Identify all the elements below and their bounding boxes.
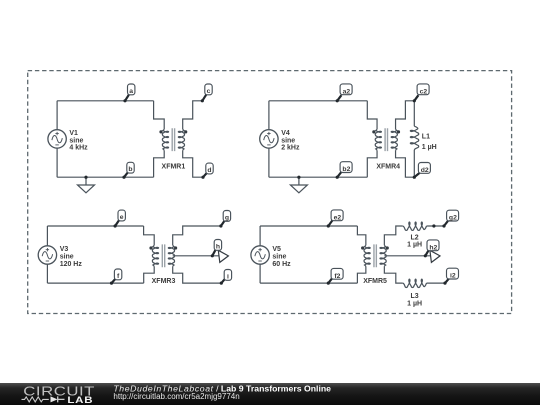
node i2 flag [443, 268, 458, 285]
wire secondary bottom to node i [173, 266, 222, 283]
center tap arrow [430, 250, 440, 262]
transformer XFMR3 secondary winding [168, 245, 174, 266]
node d flag [201, 163, 213, 179]
wire left of V3 [46, 226, 48, 283]
inductor L2 [403, 222, 427, 230]
node b2 flag [336, 162, 353, 179]
wire secondary bottom to node d2 [396, 150, 415, 177]
transformer XFMR3 primary winding [152, 245, 158, 266]
svg-text:h2: h2 [429, 244, 437, 251]
inductor L3 [403, 279, 427, 287]
wire secondary bottom to node d [183, 150, 203, 177]
ground [78, 177, 95, 193]
svg-text:1 µH: 1 µH [407, 242, 422, 249]
wire primary top jog [357, 226, 365, 245]
wire primary bottom jog [357, 266, 365, 283]
wire secondary top to node g [173, 226, 221, 245]
wire center tap to node h [173, 255, 219, 257]
node g2 flag [442, 210, 458, 227]
svg-text:XFMR5: XFMR5 [363, 278, 387, 285]
logo diode [51, 396, 58, 402]
svg-text:a2: a2 [343, 88, 351, 95]
svg-text:sine: sine [272, 254, 286, 261]
transformer XFMR1 core [172, 128, 174, 151]
node c2 flag [413, 84, 429, 103]
wire primary top jog [154, 101, 165, 129]
wire L2 to node g2 [427, 225, 445, 227]
logo resistor zigzag [22, 397, 49, 402]
node a2 flag [336, 84, 353, 103]
wire secondary bottom to L3 [384, 266, 402, 283]
node i flag [220, 270, 232, 285]
source V5 [251, 246, 269, 264]
svg-text:i: i [227, 273, 229, 280]
transformer XFMR5 primary winding [364, 245, 370, 266]
transformer XFMR4 primary winding [375, 129, 381, 150]
svg-text:V3: V3 [60, 246, 69, 253]
ground [290, 177, 307, 193]
svg-text:sine: sine [60, 254, 74, 261]
wire primary bottom jog [367, 150, 377, 177]
svg-text:sine: sine [69, 137, 83, 144]
wire left of V5 [259, 226, 261, 283]
wire bottom net b [57, 176, 154, 178]
center tap arrow [218, 250, 228, 262]
transformer XFMR4 secondary winding [391, 129, 397, 150]
svg-text:c2: c2 [420, 88, 428, 95]
svg-text:L3: L3 [411, 293, 419, 300]
node d2 flag [413, 163, 431, 179]
transformer XFMR5 core [374, 244, 376, 267]
transformer XFMR1 phase dots [159, 130, 162, 133]
svg-text:4 kHz: 4 kHz [69, 145, 88, 152]
transformer XFMR3 phase dots [149, 246, 152, 249]
svg-text:h: h [216, 243, 220, 250]
node e flag [114, 210, 126, 227]
wire top net a [57, 100, 154, 102]
svg-text:f2: f2 [334, 273, 340, 280]
node g flag [219, 211, 230, 228]
svg-text:b: b [128, 166, 132, 173]
wire primary top jog [144, 226, 155, 245]
source V3 [38, 246, 56, 264]
svg-text:g2: g2 [449, 215, 457, 222]
svg-text:2 kHz: 2 kHz [281, 145, 300, 152]
svg-text:g: g [225, 214, 229, 221]
wire L3 to node i2 [427, 282, 446, 284]
transformer XFMR1 primary winding [162, 129, 168, 150]
transformer XFMR1 secondary winding [178, 129, 184, 150]
junction dot on g2 wire [432, 224, 435, 227]
svg-text:L2: L2 [411, 234, 419, 241]
svg-text:XFMR3: XFMR3 [152, 278, 176, 285]
wire bottom net f [47, 282, 143, 284]
wire bottom net b2 [269, 176, 367, 178]
wire primary top jog [367, 101, 377, 129]
wire bottom net f2 [260, 282, 357, 284]
svg-text:XFMR1: XFMR1 [162, 164, 186, 171]
svg-text:d: d [207, 167, 211, 174]
svg-text:http://circuitlab.com/cr5a2mjg: http://circuitlab.com/cr5a2mjg9774n [113, 392, 239, 401]
node c flag [201, 84, 213, 102]
wire left of V4 [268, 101, 270, 177]
dashed border frame [28, 71, 512, 314]
svg-text:d2: d2 [421, 167, 429, 174]
wire primary bottom jog [144, 266, 155, 283]
wire primary bottom jog [154, 150, 165, 177]
svg-text:c: c [207, 88, 211, 95]
svg-text:XFMR4: XFMR4 [376, 164, 400, 171]
svg-text:LAB: LAB [67, 396, 93, 405]
source V4 [260, 130, 278, 148]
svg-text:b2: b2 [342, 166, 350, 173]
inductor L1 [410, 126, 418, 150]
wire secondary top to node c2 [396, 101, 415, 129]
wire top net a2 [269, 100, 367, 102]
svg-text:sine: sine [281, 137, 295, 144]
node f2 flag [327, 268, 343, 284]
wire top net e2 [260, 225, 357, 227]
wire center tap to node h2 [384, 255, 431, 257]
wire left of V1 [56, 101, 58, 177]
wire L1 top lead [413, 101, 415, 126]
wire L1 bottom lead [413, 150, 415, 177]
svg-text:60 Hz: 60 Hz [272, 261, 291, 268]
node b flag [122, 162, 134, 178]
svg-text:120 Hz: 120 Hz [60, 261, 83, 268]
wire secondary top to node c [183, 101, 203, 129]
svg-text:a: a [129, 88, 133, 95]
footer bar [0, 383, 540, 405]
transformer XFMR4 core [385, 128, 387, 151]
svg-text:V1: V1 [69, 130, 78, 137]
node a flag [123, 84, 134, 102]
svg-text:i2: i2 [450, 273, 456, 280]
svg-text:e2: e2 [334, 214, 342, 221]
svg-text:1 µH: 1 µH [422, 144, 437, 151]
svg-text:1 µH: 1 µH [407, 300, 422, 307]
svg-text:e: e [120, 214, 124, 221]
svg-text:V4: V4 [281, 130, 290, 137]
transformer XFMR4 phase dots [372, 130, 375, 133]
transformer XFMR5 secondary winding [380, 245, 386, 266]
svg-text:V5: V5 [272, 246, 281, 253]
transformer XFMR3 core [162, 244, 164, 267]
node e2 flag [327, 210, 343, 228]
svg-text:L1: L1 [422, 133, 430, 140]
wire secondary top to L2 [384, 226, 402, 245]
node f flag [110, 269, 122, 285]
source V1 [48, 130, 66, 148]
node h2 flag [424, 240, 439, 258]
wire top net e [47, 225, 143, 227]
node h flag [211, 240, 222, 258]
transformer XFMR5 phase dots [361, 246, 364, 249]
